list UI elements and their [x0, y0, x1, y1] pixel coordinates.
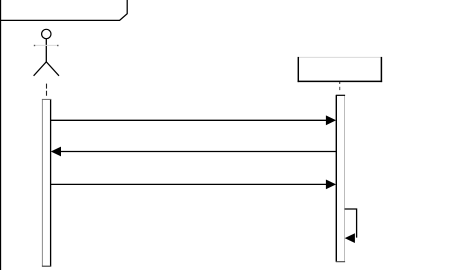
message 3 line — [51, 183, 328, 185]
message 1 arrowhead — [326, 115, 336, 125]
self message loop — [345, 209, 357, 238]
actor right leg — [46, 62, 59, 76]
actor left leg — [34, 62, 47, 76]
activation bar right — [336, 95, 344, 261]
object lifeline (dashed) — [339, 82, 341, 84]
message 2 arrowhead — [51, 147, 61, 157]
activation bar left — [43, 99, 51, 266]
frame left border — [0, 0, 2, 270]
message 3 arrowhead — [326, 180, 336, 190]
message 2 (return) line — [60, 151, 337, 153]
actor lifeline (dashed) — [46, 84, 48, 96]
actor head — [42, 29, 51, 38]
self message arrowhead — [345, 233, 355, 243]
frame label pentagon — [0, 0, 127, 20]
message 1 line — [51, 119, 328, 121]
actor body — [45, 39, 47, 62]
actor arms — [34, 44, 57, 46]
object box — [298, 57, 381, 81]
